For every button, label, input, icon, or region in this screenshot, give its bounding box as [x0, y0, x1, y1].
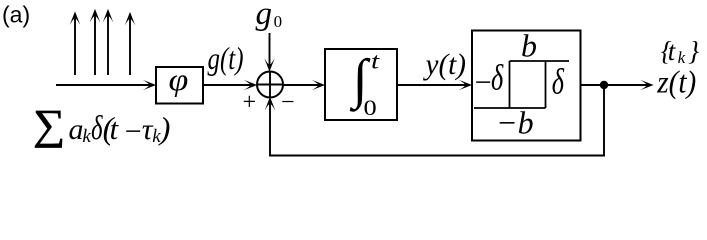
svg-text:(a): (a) — [2, 2, 30, 28]
impulse train arrow 1 — [74, 14, 76, 75]
svg-text:−: − — [473, 66, 493, 99]
node dot — [600, 81, 608, 89]
impulse train arrow 2 — [94, 12, 96, 76]
svg-text:δ: δ — [91, 109, 104, 147]
phi glyph — [169, 62, 189, 97]
svg-text:t: t — [371, 47, 380, 74]
svg-text:−: − — [280, 89, 296, 115]
svg-text:∑: ∑ — [33, 102, 65, 148]
svg-text:g: g — [256, 0, 273, 32]
hysteresis top level line — [510, 60, 570, 62]
svg-text:−b: −b — [496, 105, 534, 141]
hysteresis left vertical — [509, 61, 511, 108]
svg-text:b: b — [521, 28, 537, 64]
impulse train arrow 3 — [107, 12, 109, 76]
summing junction — [257, 72, 283, 98]
svg-text:g(t): g(t) — [208, 40, 244, 76]
wire g0 into summer — [269, 33, 271, 66]
svg-text:y(t): y(t) — [423, 48, 466, 81]
svg-text:z(t): z(t) — [656, 63, 696, 99]
svg-text:δ: δ — [552, 62, 565, 102]
feedback wire — [270, 85, 604, 156]
svg-text:δ: δ — [491, 58, 504, 98]
phi block — [156, 67, 203, 104]
hysteresis quantizer block — [472, 31, 581, 141]
delta of formula — [91, 109, 104, 147]
wire summer to integrator — [283, 84, 319, 86]
svg-text:φ: φ — [169, 62, 189, 97]
svg-text:0: 0 — [274, 12, 283, 31]
input wire into phi block — [56, 84, 150, 86]
integral lower limit 0 — [364, 96, 377, 120]
hysteresis bottom level line — [474, 107, 546, 109]
label -delta delta — [491, 58, 504, 98]
wire integrator to quantizer — [397, 84, 466, 86]
label delta — [552, 62, 565, 102]
impulse train arrow 4 — [129, 15, 131, 76]
hysteresis right vertical — [545, 61, 547, 108]
integrator block — [325, 49, 397, 120]
wire phi to summer — [203, 84, 251, 86]
sum symbol of input formula — [33, 102, 65, 148]
integral upper limit t — [371, 47, 380, 74]
output wire — [581, 84, 649, 86]
svg-text:0: 0 — [364, 96, 377, 120]
svg-text:+: + — [241, 90, 257, 116]
